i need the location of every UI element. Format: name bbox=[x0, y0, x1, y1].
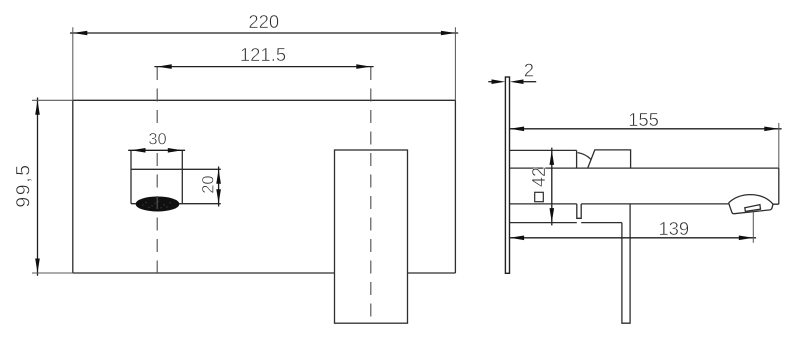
svg-text:121.5: 121.5 bbox=[240, 44, 286, 65]
label 30 bbox=[148, 131, 168, 147]
svg-text:220: 220 bbox=[248, 11, 279, 32]
body bottom line bbox=[510, 222, 622, 224]
centerline right (dashed) bbox=[370, 67, 372, 323]
wall plate (front view) bbox=[73, 100, 456, 273]
spout outlet rectangle 30x20 (front view) bbox=[131, 150, 221, 203]
lever bar (side view) bbox=[622, 204, 630, 323]
dimension 99,5 bbox=[32, 98, 73, 276]
aerator ellipse bbox=[136, 197, 179, 211]
dimension square-42 bbox=[550, 148, 555, 226]
centerline left (dashed) bbox=[156, 67, 158, 273]
svg-text:99,5: 99,5 bbox=[13, 163, 35, 207]
svg-text:139: 139 bbox=[658, 218, 689, 239]
svg-text:2: 2 bbox=[524, 59, 534, 80]
lever top (side view) bbox=[588, 150, 631, 168]
svg-text:155: 155 bbox=[628, 109, 659, 130]
lever slot notch bbox=[577, 204, 581, 218]
dimension 121.5 bbox=[154, 64, 373, 69]
svg-text:30: 30 bbox=[148, 131, 166, 149]
dimension 20 bbox=[216, 167, 221, 207]
cartridge cover top line bbox=[510, 150, 577, 168]
dimension 30 bbox=[128, 148, 185, 153]
handle (front view) bbox=[335, 150, 408, 323]
svg-text:20: 20 bbox=[200, 175, 218, 193]
wall plate (side view, thin) bbox=[505, 77, 509, 273]
spout tip outline bbox=[729, 195, 779, 214]
dimension 155 bbox=[510, 127, 782, 132]
lever base arc bbox=[578, 153, 591, 160]
spout aerator rect (side view) bbox=[745, 205, 761, 212]
body end / extension line bbox=[778, 123, 780, 204]
dimension 2 bbox=[488, 79, 536, 84]
svg-text:42: 42 bbox=[529, 167, 549, 187]
spout barrel top bbox=[510, 167, 779, 169]
dimension 220 bbox=[70, 27, 458, 100]
spout barrel bottom bbox=[510, 203, 729, 205]
dimension 139 bbox=[510, 212, 756, 243]
